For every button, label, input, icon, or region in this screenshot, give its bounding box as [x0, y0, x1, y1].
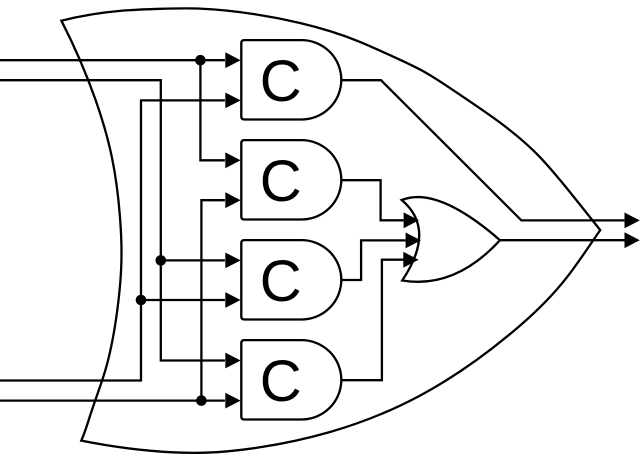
arrow U3 input 1 [225, 253, 240, 269]
wire U3 output to OR input 2 [341, 240, 405, 280]
svg-text:C: C [260, 149, 302, 214]
junction dot node B [156, 255, 167, 266]
svg-text:C: C [260, 249, 302, 314]
svg-text:C: C [260, 349, 302, 414]
arrow output OUT2 [625, 232, 640, 248]
junction dot node A [195, 55, 206, 66]
arrow U1 input 1 [225, 52, 240, 68]
arrow U4 input 1 [225, 353, 240, 369]
wire U1 output to OUT1 [341, 80, 624, 220]
arrow OR input 1 [404, 212, 419, 228]
wire input D [0, 399, 225, 401]
arrow U2 input 1 [225, 152, 240, 168]
wire U2 output to OR input 1 [341, 180, 403, 220]
arrow U4 input 2 [225, 393, 240, 409]
C-element gate U4 [241, 340, 341, 419]
wire B branch to U3 [161, 259, 225, 261]
arrow OR input 3 [403, 252, 418, 268]
wire input B [0, 80, 225, 360]
wire input A [0, 59, 225, 61]
arrow U2 input 2 [225, 192, 240, 208]
wire input C [0, 100, 225, 380]
wire OR output to OUT2 [500, 239, 625, 241]
C-element gate U3 [241, 240, 341, 319]
arrow OR input 2 [406, 233, 421, 249]
arrow output OUT1 [625, 213, 640, 229]
wire A branch to U2 [200, 60, 225, 160]
junction dot node D [196, 395, 207, 406]
C-element gate U1 [241, 40, 341, 119]
svg-text:C: C [260, 49, 302, 114]
OR gate U6 [402, 197, 500, 282]
C-element gate U2 [241, 140, 341, 219]
junction dot node C [136, 295, 147, 306]
arrow U1 input 2 [225, 93, 240, 109]
wire D branch to U2 [201, 200, 225, 400]
wire U4 output to OR input 3 [341, 260, 403, 381]
arrow U3 input 2 [225, 292, 240, 308]
wire C branch to U3 [141, 299, 225, 301]
